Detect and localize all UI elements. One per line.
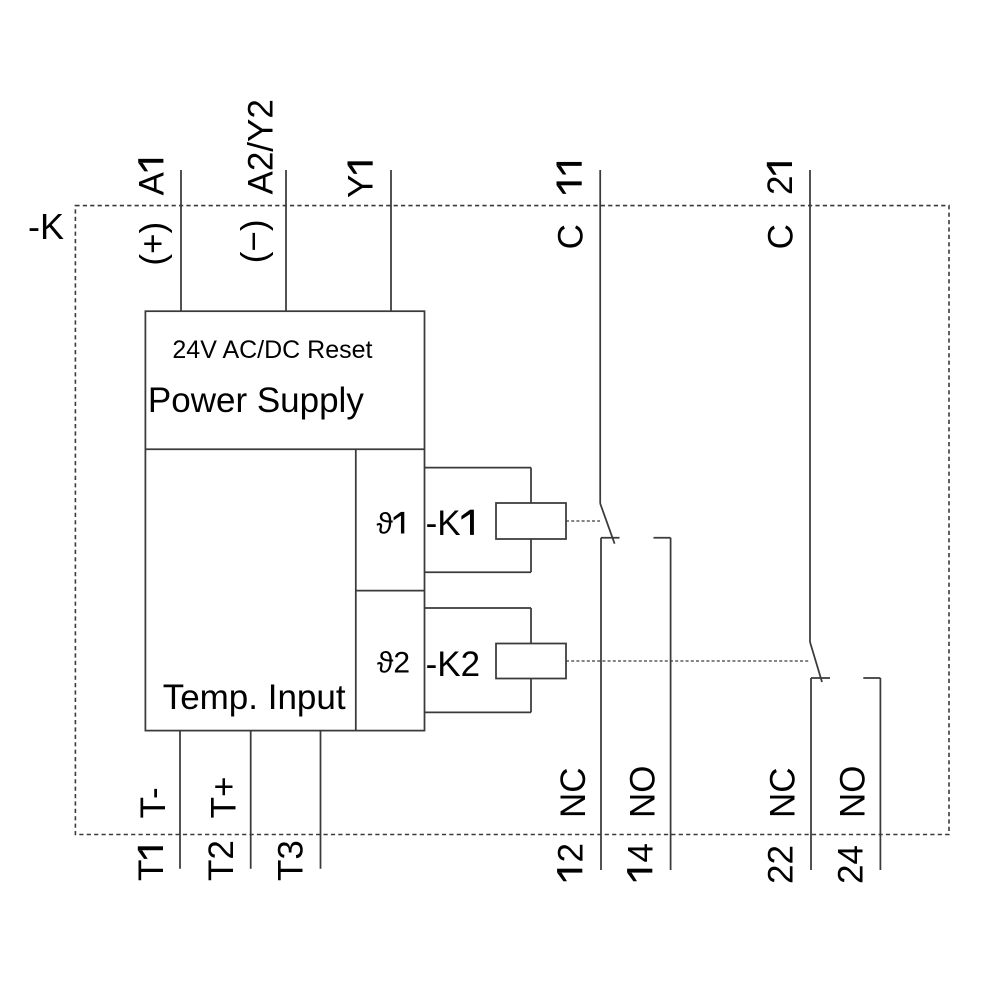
- wire K2 coil stem: [530, 608, 532, 712]
- svg-text:T+: T+: [204, 777, 243, 819]
- relay coil -K2: [496, 644, 566, 679]
- svg-text:A2/Y2: A2/Y2: [241, 99, 280, 194]
- contact K1 NC tick: [601, 537, 620, 539]
- svg-text:-K: -K: [426, 504, 461, 543]
- svg-text:-K2: -K2: [426, 645, 480, 684]
- wire A2/Y2: [285, 170, 287, 311]
- divider sensor column: [355, 449, 357, 730]
- wire 12 (NC of K1): [600, 538, 602, 870]
- svg-text:2: 2: [761, 176, 800, 195]
- contact K2 changeover blade: [810, 642, 822, 682]
- svg-text:24V AC/DC Reset: 24V AC/DC Reset: [172, 336, 372, 364]
- svg-text:T2: T2: [202, 840, 241, 881]
- svg-text:T-: T-: [134, 787, 173, 818]
- contact K2 NC tick: [811, 677, 830, 679]
- svg-text:(+): (+): [134, 222, 173, 266]
- wire T3: [320, 731, 322, 869]
- mechanical link K2 (dashed): [566, 660, 810, 662]
- contact K1 NO tick: [654, 537, 671, 539]
- svg-text:NC: NC: [554, 767, 593, 818]
- wire 22 (NC of K2): [810, 678, 812, 870]
- svg-text:(−): (−): [234, 219, 273, 263]
- svg-text:22: 22: [762, 845, 801, 884]
- wire K1 coil top: [425, 467, 532, 469]
- svg-text:NO: NO: [624, 766, 663, 819]
- wire T2: [250, 731, 252, 869]
- terminal label A1: [132, 159, 171, 196]
- wire 11 (common of contact K1): [599, 170, 601, 504]
- wire K1 coil bottom: [425, 571, 532, 573]
- terminal label 21: [761, 162, 800, 195]
- svg-text:C: C: [762, 224, 801, 249]
- terminal label 14: [621, 843, 660, 881]
- divider theta1/theta2 cells: [356, 590, 425, 592]
- svg-text:-K: -K: [28, 206, 64, 247]
- wire K2 coil bottom: [425, 711, 532, 713]
- svg-text:ϑ: ϑ: [377, 508, 394, 541]
- wire 24 (NO of K2): [879, 678, 881, 870]
- svg-text:NC: NC: [764, 767, 803, 818]
- device boundary -K (dashed rectangle): [75, 206, 949, 835]
- svg-text:Power Supply: Power Supply: [148, 381, 364, 420]
- terminal label 11: [557, 162, 582, 194]
- wire A1: [180, 170, 182, 311]
- svg-text:ϑ2: ϑ2: [377, 647, 410, 680]
- wire K1 coil stem: [530, 468, 532, 573]
- function unit box U1 (power supply + temp input): [145, 311, 424, 730]
- mechanical link K1 (dashed): [566, 520, 600, 522]
- svg-text:2: 2: [551, 843, 590, 862]
- svg-text:Temp. Input: Temp. Input: [163, 678, 346, 717]
- wire 14 (NO of K1): [670, 538, 672, 870]
- wire K2 coil top: [425, 607, 532, 609]
- svg-text:24: 24: [832, 845, 871, 884]
- wire T1: [179, 731, 181, 869]
- contact K1 changeover blade: [600, 504, 614, 544]
- wire Y1: [390, 170, 392, 311]
- svg-text:T3: T3: [272, 840, 311, 881]
- svg-text:NO: NO: [834, 766, 873, 819]
- contact K2 NO tick: [863, 677, 880, 679]
- svg-text:A: A: [132, 172, 171, 196]
- label -K1: [426, 504, 474, 543]
- terminal label 12: [551, 843, 590, 881]
- svg-text:Y: Y: [342, 175, 381, 198]
- relay coil -K1: [496, 503, 566, 539]
- terminal label Y1: [342, 161, 381, 198]
- wire 21 (common of contact K2): [809, 170, 811, 642]
- svg-text:C: C: [552, 224, 591, 249]
- sensor input label theta1: [377, 508, 405, 541]
- divider power supply section: [145, 448, 424, 450]
- svg-text:T: T: [132, 860, 171, 881]
- terminal label T1: [132, 846, 171, 881]
- svg-text:4: 4: [621, 843, 660, 862]
